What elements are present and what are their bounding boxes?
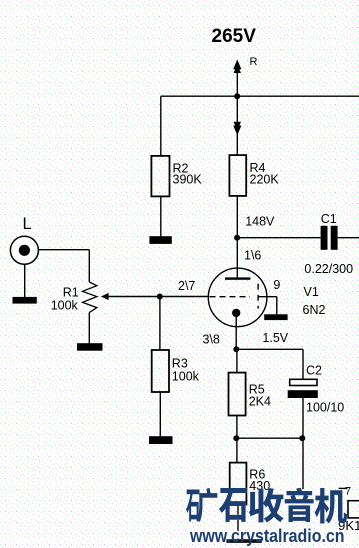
svg-text:2K4: 2K4 bbox=[249, 395, 271, 409]
svg-text:R1: R1 bbox=[63, 286, 79, 300]
svg-text:C1: C1 bbox=[321, 212, 337, 226]
svg-text:V1: V1 bbox=[304, 285, 319, 299]
svg-text:390K: 390K bbox=[173, 173, 203, 187]
svg-text:100/10: 100/10 bbox=[306, 401, 344, 415]
svg-text:100k: 100k bbox=[51, 299, 79, 313]
svg-text:www.crystalradio.cn: www.crystalradio.cn bbox=[189, 526, 344, 546]
svg-text:R: R bbox=[250, 56, 258, 68]
svg-text:1\6: 1\6 bbox=[244, 249, 261, 263]
svg-text:2\7: 2\7 bbox=[178, 279, 195, 293]
svg-text:7: 7 bbox=[345, 486, 351, 498]
svg-text:265V: 265V bbox=[212, 26, 257, 47]
svg-text:1.5V: 1.5V bbox=[262, 331, 288, 345]
svg-text:9: 9 bbox=[273, 278, 280, 292]
svg-text:0.22/300: 0.22/300 bbox=[304, 262, 353, 276]
svg-text:148V: 148V bbox=[245, 214, 275, 228]
svg-text:100k: 100k bbox=[172, 369, 200, 383]
svg-text:C2: C2 bbox=[306, 364, 322, 378]
svg-text:6N2: 6N2 bbox=[303, 303, 326, 317]
svg-text:3\8: 3\8 bbox=[203, 333, 220, 347]
svg-text:220K: 220K bbox=[250, 173, 280, 187]
svg-text:L: L bbox=[23, 215, 32, 233]
